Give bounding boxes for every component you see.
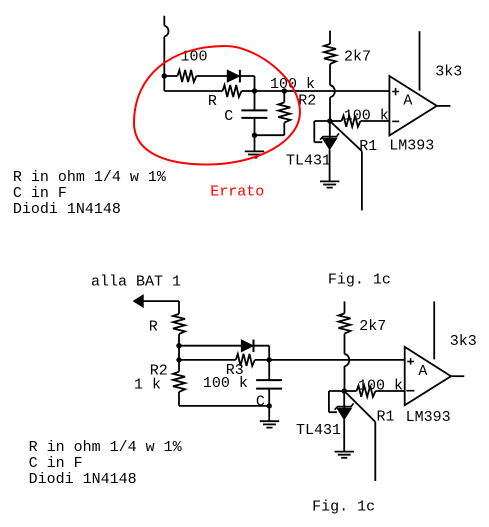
wire: resistor R3 through node H to op-amp U3 plus input [255,359,405,361]
TL431 U2 body box [314,121,330,142]
caption Fig. 1c (top) [328,272,391,289]
wire: resistor R2 bottom to node I [179,392,269,406]
svg-text:R in ohm 1/4 w 1%: R in ohm 1/4 w 1% [29,439,183,456]
TL431 U4 body box [329,391,344,412]
diode D1 (1N4148, pointing right) [227,70,240,83]
svg-text:Fig. 1c: Fig. 1c [312,499,375,516]
wire: 2k7 down to hop over plus-input wire, then to node E [330,64,335,121]
value label 2k7 (bottom circuit) [359,318,386,335]
node J junction dot (344.2,391) [342,388,347,393]
wire: resistor R1 to op-amp U1 minus input [361,120,390,122]
svg-text:100 k: 100 k [358,378,403,395]
capacitor C bottom lead to node I [268,389,270,406]
wire: node G to resistor R3 [179,359,236,361]
value label 1 k [134,377,161,394]
op-amp U1 plus input marker [392,88,399,95]
label alla BAT 1 [91,274,181,291]
wire: resistor 100 to diode D1 [196,75,227,77]
label R (bottom circuit) [149,319,158,336]
svg-text:2k7: 2k7 [359,318,386,335]
TL431 U4 reference pin lead (diagonal then down) [345,392,375,481]
svg-text:LM393: LM393 [389,138,434,155]
ground (below node D) [245,135,264,157]
op-amp U1 minus input marker [392,120,399,122]
resistor R2 (vertical, 1k) zigzag [173,372,185,392]
label Errato (red) [210,183,264,200]
resistor R1 (horizontal, 100k, bottom circuit) [357,386,376,397]
value label 100 k (R3) [203,375,248,392]
wire: 2k7 top supply lead (bottom circuit) [344,301,346,313]
svg-text:Diodi 1N4148: Diodi 1N4148 [13,201,121,218]
wire: diode D2 cathode to node H corner [253,346,269,360]
op-amp U1 label A [403,93,412,110]
wire: resistor R2 bottom to node D [255,123,285,136]
diode D2 (1N4148, pointing right) [241,340,253,353]
resistor R2 (vertical, 100k) top lead [283,91,285,102]
wire: op-amp U1 output stub [437,105,451,107]
ground (below TL431 U2) [320,181,339,187]
op-amp U3 plus input marker [407,358,414,365]
wire: 3k3 pull-up lead (bottom circuit) [433,301,435,359]
red error ellipse [134,46,300,165]
wire: resistor R down through node F and node G [178,334,180,372]
node G junction dot (179,359.9) [176,357,181,362]
svg-text:alla BAT 1: alla BAT 1 [91,274,181,291]
label TL431 (bottom circuit) [296,422,341,439]
node C junction dot (284.3,91) [282,88,287,93]
svg-text:R: R [208,93,217,110]
wire: diode D1 cathode to node B [241,76,255,91]
wire: node A corner down to resistor R branch (y=91) [164,90,222,92]
svg-text:Diodi 1N4148: Diodi 1N4148 [29,471,137,488]
value label 2k7 [344,48,371,65]
TL431 U4 cathode bar (bent zener bar) [335,403,354,409]
svg-text:R in ohm 1/4 w 1%: R in ohm 1/4 w 1% [13,169,167,186]
svg-text:100 k: 100 k [270,76,315,93]
node I junction dot (269.2,405.9) [267,403,272,408]
resistor 2k7 (vertical) zigzag [324,44,336,64]
value label 100 k (R2) [270,76,315,93]
svg-text:1 k: 1 k [134,377,161,394]
TL431 U2 reference pin lead (diagonal then down) [331,122,362,211]
wire: op-amp U3 output stub [451,375,464,377]
wire: 2k7 top supply lead [329,31,331,44]
wire: node A to resistor 100 (upper branch y=76) [164,75,177,77]
label LM393 (bottom circuit) [406,409,451,426]
wire: 3k3 pull-up lead [419,31,421,90]
resistor R1 (horizontal, 100k) [342,116,361,127]
node H junction dot (269.2,359.9) [267,357,272,362]
node A junction dot (164,76) [162,73,167,78]
svg-text:C: C [256,394,265,411]
ground (below TL431 U4) [335,452,354,458]
arrow to BAT 1 [134,295,144,307]
label R2 [298,93,316,110]
resistor 2k7 (vertical, bottom circuit) zigzag [339,313,351,333]
svg-text:R: R [149,319,158,336]
svg-text:3k3: 3k3 [435,63,462,80]
caption Fig. 1c (bottom) [312,499,375,516]
wire: node B to node C and on to op-amp U1 plus input [255,90,390,92]
TL431 U2 triangle [322,138,336,149]
wire: node J to resistor R1 (bottom circuit) [344,390,356,392]
svg-text:A: A [403,93,412,110]
op-amp U1 (LM393 comparator A) triangle [389,76,436,136]
svg-text:Errato: Errato [210,183,264,200]
label R1 (bottom circuit) [377,409,395,426]
label TL431 [286,153,331,170]
op-amp U3 minus input marker [406,390,414,392]
note text block (bottom) [29,439,183,488]
value label 100 k (R1) [344,107,389,124]
resistor 100 (horizontal) [177,70,196,82]
wire: resistor R to node B [242,90,255,92]
svg-text:100: 100 [181,49,208,66]
svg-text:2k7: 2k7 [344,48,371,65]
svg-text:R2: R2 [298,93,316,110]
resistor R3 (horizontal, 100k) [236,354,255,366]
capacitor C bottom lead [254,119,256,136]
capacitor C plates [241,110,267,118]
label C [224,108,233,125]
TL431 U4 triangle [337,408,351,419]
svg-text:TL431: TL431 [296,422,341,439]
svg-text:Fig. 1c: Fig. 1c [328,272,391,289]
svg-text:A: A [418,363,427,380]
svg-text:3k3: 3k3 [450,333,477,350]
capacitor C (bottom circuit) top lead [268,360,270,380]
TL431 U2 cathode lead [329,121,331,138]
TL431 U4 anode lead to ground [343,420,345,452]
op-amp U3 label A [418,363,427,380]
label R [208,93,217,110]
svg-text:C in F: C in F [13,185,67,202]
node F junction dot (179,345.7) [176,343,181,348]
wire: resistor R1 to op-amp U3 minus input [376,390,405,392]
TL431 U2 cathode bar (bent zener bar) [320,133,339,139]
value label 3k3 (bottom circuit) [450,333,477,350]
ground (bottom circuit, below node I) [260,406,279,428]
resistor R2 (vertical) zigzag [278,102,290,122]
label C (bottom circuit) [256,394,265,411]
value label 100 k (R1 bottom) [358,378,403,395]
label R2 (bottom circuit) [150,363,168,380]
svg-text:TL431: TL431 [286,153,331,170]
svg-text:100 k: 100 k [203,375,248,392]
label R1 [359,138,377,155]
op-amp U3 (LM393 comparator A) triangle [405,347,451,405]
value label 3k3 [435,63,462,80]
value label 100 [181,49,208,66]
label LM393 [389,138,434,155]
svg-text:C: C [224,108,233,125]
capacitor C (bottom circuit) plates [256,380,282,389]
svg-text:C in F: C in F [29,455,83,472]
TL431 U4 cathode lead [343,391,345,408]
svg-text:LM393: LM393 [406,409,451,426]
wire: 2k7 down with hop over plus-input wire to node J [345,334,350,391]
node E junction dot (329.8,121) [327,118,332,123]
wire: node E to resistor R1 [330,120,342,122]
label R3 [226,362,244,379]
note text block (top) [13,169,167,218]
wire: arrow to resistor R (bottom circuit) corner [143,301,179,314]
node D junction dot (254.5,135.2) [252,133,257,138]
resistor R (vertical, bottom circuit) [173,314,185,334]
wire: node F to diode D2 [179,345,242,347]
resistor R (horizontal) [223,85,242,97]
TL431 U2 anode lead to ground [329,150,331,182]
capacitor C (node B to ground) top lead [254,91,256,110]
node B junction dot (254.5,91) [252,88,257,93]
wire: top supply lead into node A (with break squiggle) [164,16,168,91]
svg-text:R1: R1 [377,409,395,426]
